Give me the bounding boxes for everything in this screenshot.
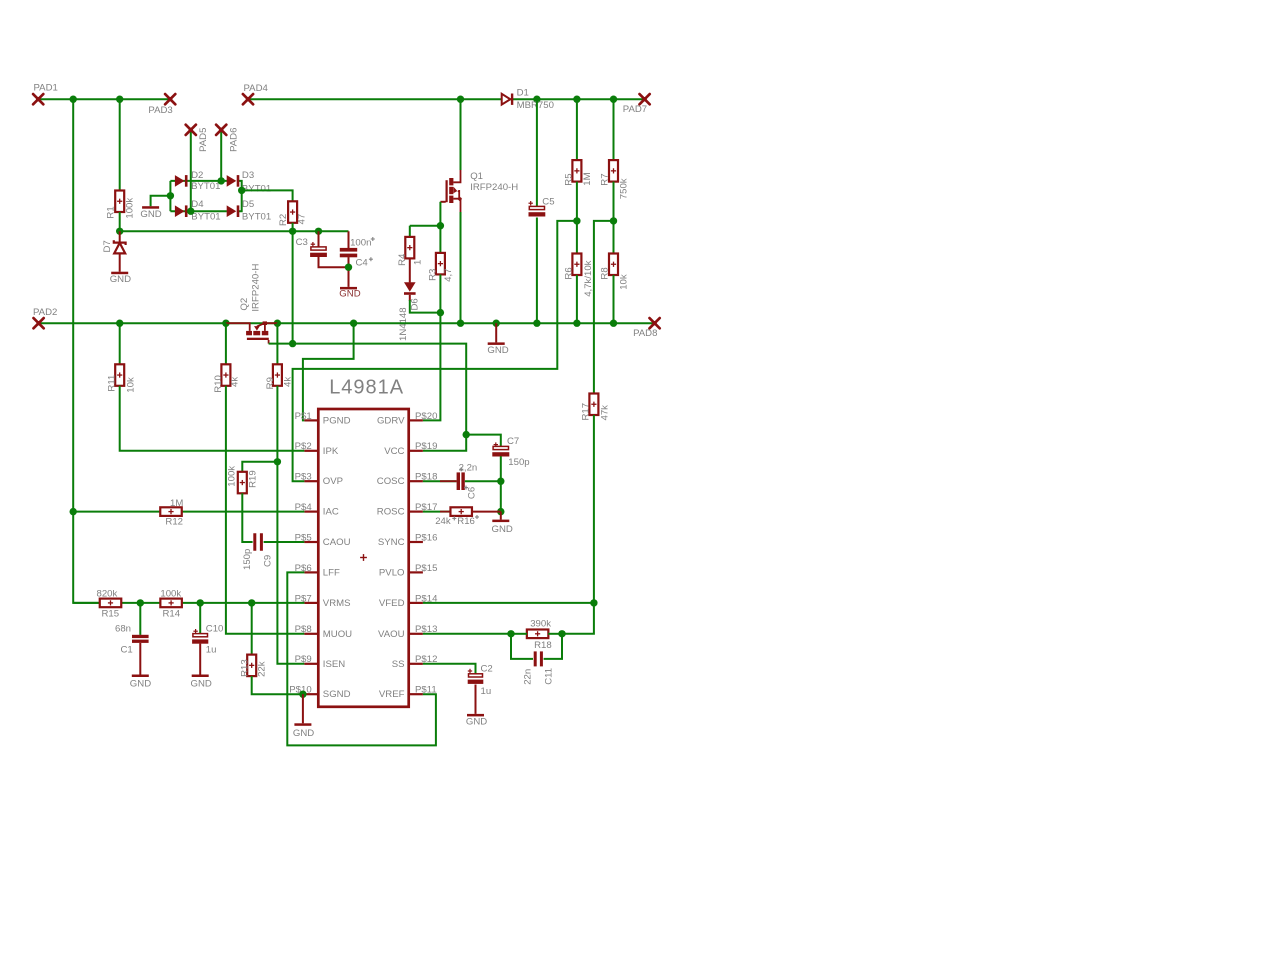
wire C7 bottom to COSC node xyxy=(500,456,502,481)
svg-text:PAD1: PAD1 xyxy=(34,83,58,94)
svg-text:1M: 1M xyxy=(582,172,593,185)
ground at bridge xyxy=(142,206,159,209)
svg-text:4k: 4k xyxy=(282,377,293,387)
wire C5 top lead xyxy=(536,99,538,206)
IC U1 L4981A body xyxy=(318,409,408,707)
pin P$19 VCC xyxy=(409,450,423,452)
svg-text:C4: C4 xyxy=(356,258,369,269)
pad PAD6 xyxy=(216,125,226,135)
transistor Q2 IRFP240-H xyxy=(246,321,269,340)
pin P$8 MUOU xyxy=(304,633,318,635)
wire PAD5 riser xyxy=(190,131,192,211)
svg-text:47: 47 xyxy=(297,214,308,225)
svg-text:R5: R5 xyxy=(563,173,574,185)
svg-text:PAD5: PAD5 xyxy=(198,128,209,152)
pad PAD5 xyxy=(186,125,196,135)
ground below ROSC xyxy=(492,520,509,523)
wire C2 bottom lead xyxy=(475,685,477,714)
svg-text:L4981A: L4981A xyxy=(329,376,404,398)
pin P$17 ROSC xyxy=(409,511,423,513)
wire VCC boot from R5/R6 node down-left to OVP riser xyxy=(293,221,577,481)
junction R2 bottom riser xyxy=(289,228,296,235)
svg-text:GND: GND xyxy=(492,524,513,535)
junction C3 top xyxy=(315,228,322,235)
svg-text:P$16: P$16 xyxy=(415,532,437,543)
ground below C2 xyxy=(467,714,484,717)
wire D7 top lead xyxy=(119,231,121,241)
wire SS to C2 xyxy=(423,664,476,674)
svg-text:D4: D4 xyxy=(191,199,204,210)
svg-text:VREF: VREF xyxy=(379,689,405,700)
svg-text:R6: R6 xyxy=(563,267,574,279)
pin P$13 VAOU xyxy=(409,633,423,635)
svg-text:4k: 4k xyxy=(230,377,241,387)
wire C1 top lead xyxy=(139,603,141,635)
junction top net at Q1 drain xyxy=(457,96,464,103)
svg-text:C10: C10 xyxy=(206,624,224,635)
wire Q1 drain from top net xyxy=(460,99,462,170)
svg-text:R10: R10 xyxy=(213,375,224,393)
svg-text:GND: GND xyxy=(110,274,131,285)
svg-text:GND: GND xyxy=(191,678,212,689)
wire VAOU to R18 left node xyxy=(423,633,511,635)
ground below C10 xyxy=(192,675,209,678)
diode D3 BYT01 xyxy=(227,175,237,187)
junction ROSC node xyxy=(497,508,504,515)
zener diode D7 xyxy=(114,240,126,253)
ground below C1 xyxy=(132,675,149,678)
svg-text:IAC: IAC xyxy=(323,507,339,518)
junction SGND node xyxy=(299,691,306,698)
junction bus at R6 xyxy=(573,320,580,327)
junction on PAD1 net at R1 column xyxy=(116,96,123,103)
svg-text:PGND: PGND xyxy=(323,415,351,426)
wire SGND gnd stub xyxy=(302,694,304,723)
junction bus at Q1 source xyxy=(457,320,464,327)
wire VCC to C7 xyxy=(466,435,501,447)
capacitor C7 150p xyxy=(494,442,498,446)
svg-text:P$5: P$5 xyxy=(295,532,312,543)
wire bus PAD2 to PAD8 xyxy=(39,322,655,324)
wire D6 bottom lead xyxy=(409,295,411,301)
svg-text:COSC: COSC xyxy=(377,476,405,487)
junction bus at R8 xyxy=(610,320,617,327)
pin P$6 LFF xyxy=(304,571,318,573)
wire bridge bottom row xyxy=(170,210,227,212)
junction R3/D6/GDRV node xyxy=(437,309,444,316)
ground below bus xyxy=(488,342,505,345)
transistor Q1 IRFP240-H xyxy=(446,178,460,203)
wire R1 bottom to junction xyxy=(119,212,121,231)
wire R9 top lead xyxy=(276,323,278,364)
svg-text:MBR750: MBR750 xyxy=(517,100,554,111)
junction R18 left xyxy=(507,630,514,637)
resistor R18 390k xyxy=(527,630,549,639)
svg-text:LFF: LFF xyxy=(323,567,340,578)
junction R9 column / R19 branch xyxy=(274,458,281,465)
wire COSC-ROSC link xyxy=(500,481,502,511)
resistor R11 10k xyxy=(115,364,124,386)
svg-text:PAD7: PAD7 xyxy=(623,104,647,115)
capacitor C4 100n xyxy=(340,248,357,252)
wire R13 top lead xyxy=(251,603,253,655)
wire R5 top lead xyxy=(576,99,578,160)
resistor R10 4k xyxy=(221,364,230,386)
svg-text:PAD2: PAD2 xyxy=(33,307,57,318)
wire bridge right rail xyxy=(239,181,242,211)
svg-text:150p: 150p xyxy=(508,457,529,468)
resistor R15 820k xyxy=(100,599,122,608)
svg-text:GND: GND xyxy=(140,209,161,220)
svg-text:P$9: P$9 xyxy=(295,654,312,665)
svg-text:22k: 22k xyxy=(256,661,267,677)
wire R19 bottom to C9 left xyxy=(242,493,252,542)
svg-text:47k: 47k xyxy=(599,405,610,421)
wire R3 bottom lead xyxy=(439,274,441,312)
wire C11 loop xyxy=(511,634,533,659)
svg-text:Q1: Q1 xyxy=(470,171,483,182)
svg-text:GND: GND xyxy=(293,728,314,739)
svg-text:D1: D1 xyxy=(517,87,529,98)
resistor R8 10k xyxy=(609,254,618,276)
wire VRMS row xyxy=(73,602,304,604)
junction D4-D5 node xyxy=(187,208,194,215)
svg-text:GND: GND xyxy=(487,345,508,356)
svg-text:IRFP240-H: IRFP240-H xyxy=(250,264,261,312)
svg-text:R2: R2 xyxy=(278,214,289,226)
svg-text:100k: 100k xyxy=(160,589,181,600)
diode D4 BYT01 xyxy=(175,205,185,217)
pad PAD7 xyxy=(640,94,650,104)
wire R17 bottom to VFED row xyxy=(593,415,595,603)
svg-text:VFED: VFED xyxy=(379,598,405,609)
wire VREF-LFF loop xyxy=(287,572,436,745)
junction R18 right xyxy=(558,630,565,637)
svg-text:24k: 24k xyxy=(435,516,451,527)
svg-text:R11: R11 xyxy=(106,375,117,392)
svg-text:PAD3: PAD3 xyxy=(148,105,172,116)
svg-text:22n: 22n xyxy=(522,669,533,685)
wire Q1 source to bus xyxy=(460,212,462,323)
wire left rail x=73 from top to R15 row xyxy=(73,99,100,603)
junction bus at Q2 source/R9 xyxy=(274,320,281,327)
svg-text:4,7k/10k: 4,7k/10k xyxy=(583,260,594,296)
junction VFED / R17 xyxy=(590,599,597,606)
svg-text:IRFP240-H: IRFP240-H xyxy=(470,182,518,193)
wire R7-R8 link xyxy=(613,182,615,254)
junction bridge left xyxy=(167,192,174,199)
pad PAD4 xyxy=(243,94,253,104)
junction top net at C5 xyxy=(533,96,540,103)
wire bridge gnd hook xyxy=(151,196,171,206)
wire D7 bottom lead to ground xyxy=(119,253,121,271)
pad PAD2 xyxy=(34,318,44,328)
svg-text:R16: R16 xyxy=(457,516,475,527)
wire row y=231 R1 to C4 xyxy=(120,230,349,232)
svg-text:R15: R15 xyxy=(102,608,120,619)
svg-text:GND: GND xyxy=(466,717,487,728)
svg-text:100k: 100k xyxy=(124,198,135,219)
resistor R19 100k xyxy=(238,472,247,494)
svg-text:750k: 750k xyxy=(618,178,629,199)
junction VCC / C7 node xyxy=(463,431,470,438)
wire R2 bottom lead xyxy=(292,223,294,232)
wire VFED down to R18 right node xyxy=(562,603,594,634)
pin P$10 SGND xyxy=(304,693,318,695)
wire R1 column top xyxy=(119,99,121,190)
pad PAD8 xyxy=(650,318,660,328)
wire PGND to bus xyxy=(303,323,354,420)
svg-text:MUOU: MUOU xyxy=(323,629,352,640)
wire gate node row y=225.7 xyxy=(410,225,441,227)
wire Q2 gate to VCC node xyxy=(269,344,467,451)
svg-text:100k: 100k xyxy=(227,466,238,487)
svg-text:VRMS: VRMS xyxy=(323,598,351,609)
capacitor C1 68n xyxy=(132,635,149,638)
resistor R14 100k xyxy=(160,599,182,608)
junction R7/R8 node xyxy=(610,217,617,224)
ground below SGND xyxy=(294,723,311,726)
svg-text:SYNC: SYNC xyxy=(378,537,405,548)
svg-text:R13: R13 xyxy=(239,659,250,677)
wire C4 top lead xyxy=(348,231,350,248)
wire R6 bottom to bus xyxy=(576,275,578,323)
svg-text:GND: GND xyxy=(339,289,360,300)
svg-text:ISEN: ISEN xyxy=(323,659,345,670)
junction bus at R11 xyxy=(116,320,123,327)
junction gate node xyxy=(437,222,444,229)
ground below D7 xyxy=(111,272,128,275)
svg-text:R4: R4 xyxy=(397,253,408,266)
junction D2-D3 node xyxy=(218,177,225,184)
wire R5-R6 link xyxy=(576,182,578,254)
pad PAD1 xyxy=(33,94,43,104)
svg-text:D6: D6 xyxy=(410,298,421,310)
svg-text:VCC: VCC xyxy=(384,446,404,457)
svg-text:C9: C9 xyxy=(262,555,273,567)
svg-text:C11: C11 xyxy=(544,668,555,685)
resistor R16 24k xyxy=(450,507,472,516)
wire C9 right to CAOU xyxy=(264,541,305,543)
svg-text:P$19: P$19 xyxy=(415,441,437,452)
svg-text:SGND: SGND xyxy=(323,689,351,700)
junction R5/R6 node xyxy=(573,217,580,224)
junction on PAD1 net at left rail xyxy=(70,96,77,103)
wire R8 bottom to bus xyxy=(613,275,615,323)
ground below C4 xyxy=(340,287,357,290)
resistor R1 100k xyxy=(115,191,124,213)
wire C3 bottom lead xyxy=(319,257,349,267)
capacitor C2 1u xyxy=(468,669,472,673)
wire VFED row to R17 xyxy=(423,602,594,604)
svg-text:BYT01: BYT01 xyxy=(191,211,220,222)
resistor R2 47 xyxy=(288,201,297,223)
svg-text:R17: R17 xyxy=(580,403,591,421)
diode D1 MBR750 xyxy=(502,94,511,105)
svg-text:R19: R19 xyxy=(247,470,258,488)
svg-text:OVP: OVP xyxy=(323,476,343,487)
capacitor C9 150p xyxy=(253,533,256,551)
svg-text:GDRV: GDRV xyxy=(377,415,405,426)
svg-text:P$1: P$1 xyxy=(295,411,312,422)
junction C10 node xyxy=(197,599,204,606)
resistor R6 4,7k/10k xyxy=(572,254,581,276)
pin P$18 COSC xyxy=(409,480,423,482)
svg-text:R18: R18 xyxy=(534,640,552,651)
svg-text:SS: SS xyxy=(392,659,405,670)
wire ROSC gnd stub xyxy=(500,512,502,520)
wire C3 top lead xyxy=(318,231,320,247)
svg-text:VAOU: VAOU xyxy=(378,629,405,640)
resistor R9 4k xyxy=(273,364,282,386)
junction R13 node xyxy=(248,599,255,606)
wire R11 top lead xyxy=(119,323,121,364)
svg-text:100n: 100n xyxy=(350,238,371,249)
svg-text:1u: 1u xyxy=(481,686,492,697)
svg-text:R9: R9 xyxy=(265,377,276,389)
svg-text:390k: 390k xyxy=(530,618,551,629)
svg-text:1M: 1M xyxy=(170,498,183,509)
svg-text:10k: 10k xyxy=(125,377,136,393)
capacitor C3 xyxy=(311,242,315,246)
junction left rail at IAC row xyxy=(70,508,77,515)
wire R10 top lead xyxy=(225,323,227,364)
svg-text:Q2: Q2 xyxy=(239,298,250,311)
junction top net at R7 xyxy=(610,96,617,103)
wire C4 bottom to ground node xyxy=(348,257,350,287)
svg-text:PAD6: PAD6 xyxy=(229,128,240,152)
svg-text:GND: GND xyxy=(130,678,151,689)
svg-text:PAD4: PAD4 xyxy=(244,83,269,94)
pin P$9 ISEN xyxy=(304,663,318,665)
svg-text:C2: C2 xyxy=(481,664,493,675)
resistor R3 4,7 xyxy=(436,253,445,275)
resistor R5 1M xyxy=(572,160,581,182)
pad PAD3 xyxy=(165,94,175,104)
pin P$11 VREF xyxy=(409,693,423,695)
wire COSC to C6 xyxy=(423,480,457,482)
svg-text:D3: D3 xyxy=(242,170,254,181)
svg-text:BYT01: BYT01 xyxy=(242,211,271,222)
pin P$4 IAC xyxy=(304,511,318,513)
wire bridge left rail xyxy=(169,181,171,211)
pin P$7 VRMS xyxy=(304,602,318,604)
capacitor C11 22n xyxy=(534,651,537,666)
svg-text:R8: R8 xyxy=(600,267,611,279)
wire C5 bottom lead to bus xyxy=(536,218,538,324)
wire R19 branch from R9 column xyxy=(242,462,277,472)
svg-text:BYT01: BYT01 xyxy=(242,184,271,195)
svg-text:R12: R12 xyxy=(165,517,183,528)
pin P$5 CAOU xyxy=(304,541,318,543)
junction bus at PGND riser xyxy=(350,320,357,327)
wire C1 bottom lead xyxy=(139,643,141,675)
svg-text:C5: C5 xyxy=(542,196,554,207)
pin P$14 VFED xyxy=(409,602,423,604)
wire C3 node riser xyxy=(292,231,294,343)
wire PAD6 riser xyxy=(220,131,222,181)
svg-text:820k: 820k xyxy=(97,589,118,600)
svg-text:P$15: P$15 xyxy=(415,563,437,574)
diode D2 BYT01 xyxy=(175,175,185,187)
wire C6 right to COSC node xyxy=(465,480,501,482)
pin P$12 SS xyxy=(409,663,423,665)
pin P$3 OVP xyxy=(304,480,318,482)
wire bridge top row xyxy=(170,180,227,182)
junction bridge output node xyxy=(238,187,245,194)
svg-text:PVLO: PVLO xyxy=(379,567,405,578)
wire R16 right lead xyxy=(472,511,501,513)
wire R13 bottom to SGND node xyxy=(252,676,303,694)
wire R7 top lead xyxy=(613,99,615,160)
svg-text:R14: R14 xyxy=(163,608,181,619)
wire IAC row xyxy=(73,511,304,513)
wire PAD4-PAD7 net xyxy=(248,98,645,100)
resistor R4 1 xyxy=(405,237,414,259)
svg-text:R7: R7 xyxy=(600,173,611,185)
wire bridge output to R2 xyxy=(242,190,293,201)
pin P$20 GDRV xyxy=(409,419,423,421)
svg-text:C3: C3 xyxy=(296,237,308,248)
resistor R13 22k xyxy=(247,655,256,677)
capacitor C6 2,2n xyxy=(457,472,460,490)
svg-text:C7: C7 xyxy=(507,436,519,447)
wire C10 top lead xyxy=(199,603,201,634)
svg-text:C6: C6 xyxy=(466,487,477,499)
svg-text:D7: D7 xyxy=(102,240,113,252)
resistor R12 1M xyxy=(160,507,182,516)
junction bus at C5 xyxy=(533,320,540,327)
svg-text:CAOU: CAOU xyxy=(323,537,351,548)
svg-text:10k: 10k xyxy=(618,274,629,290)
svg-text:150p: 150p xyxy=(242,549,253,570)
wire bus gnd stub xyxy=(495,323,497,342)
svg-text:P$2: P$2 xyxy=(295,441,312,452)
svg-text:1: 1 xyxy=(413,260,424,265)
svg-text:4,7: 4,7 xyxy=(443,268,454,281)
pin P$15 PVLO xyxy=(409,571,423,573)
junction bus at GND stub xyxy=(493,320,500,327)
capacitor C10 1u xyxy=(193,629,197,633)
wire Q1 gate lead xyxy=(440,201,445,203)
diode D5 BYT01 xyxy=(227,205,237,217)
wire R10 bottom to MUOU row xyxy=(226,386,305,634)
svg-text:R1: R1 xyxy=(106,206,117,218)
junction Q2 gate / C3 riser xyxy=(289,340,296,347)
wire R9 bottom to ISEN row xyxy=(277,386,304,664)
svg-text:1u: 1u xyxy=(206,645,217,656)
junction R1 bottom xyxy=(116,228,123,235)
wire R4 top lead xyxy=(409,226,411,237)
junction top net at R5 xyxy=(573,96,580,103)
junction bus at Q2 drain xyxy=(222,320,229,327)
svg-text:D5: D5 xyxy=(242,199,254,210)
junction COSC node xyxy=(497,478,504,485)
resistor R17 47k xyxy=(589,394,598,416)
junction C3/C4 ground node xyxy=(345,264,352,271)
svg-text:D2: D2 xyxy=(191,170,203,181)
svg-text:BYT01: BYT01 xyxy=(191,181,220,192)
svg-text:P$8: P$8 xyxy=(295,624,312,635)
pin P$1 PGND xyxy=(304,419,318,421)
wire R3 top lead xyxy=(439,226,441,253)
junction C1 node xyxy=(137,599,144,606)
pin P$16 SYNC xyxy=(409,541,423,543)
capacitor C5 xyxy=(529,201,533,205)
wire GDRV riser xyxy=(423,313,441,421)
pin P$2 IPK xyxy=(304,450,318,452)
wire C10 bottom lead xyxy=(199,644,201,675)
